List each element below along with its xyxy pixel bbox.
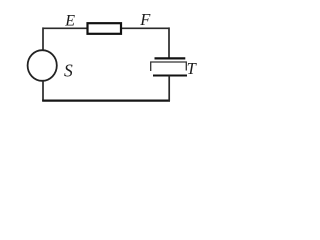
wire right rail upper (corner to T top plate) xyxy=(168,27,170,57)
transducer T top plate xyxy=(155,57,186,59)
wire left rail lower (source bottom to corner) xyxy=(42,81,44,102)
wire top rail right segment (resistor to corner) xyxy=(121,27,169,29)
svg-text:S: S xyxy=(64,60,73,80)
svg-text:F: F xyxy=(139,10,151,29)
resistor (between E and F) xyxy=(88,23,122,34)
wire right rail lower (T bottom plate to corner) xyxy=(168,76,170,102)
wire bottom rail xyxy=(42,99,170,101)
transducer T bottom plate xyxy=(153,74,187,76)
svg-text:E: E xyxy=(64,13,75,30)
svg-text:T: T xyxy=(187,59,198,78)
wire top rail left segment (corner to resistor) xyxy=(43,27,87,29)
transducer T case bracket (open-bottom rectangle) xyxy=(151,62,187,71)
wire left rail upper (corner to source top) xyxy=(42,27,44,50)
source S circle xyxy=(28,50,57,81)
